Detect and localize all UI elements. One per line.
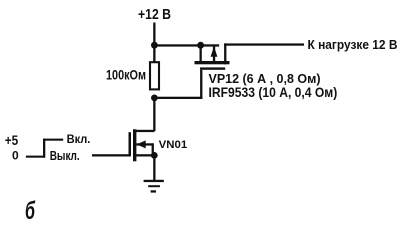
transistor VP12 substrate arrow	[211, 46, 218, 62]
svg-text:VP12 (6 А , 0,8 Ом): VP12 (6 А , 0,8 Ом)	[209, 71, 321, 86]
transistor VP12 gate lead to resistor bottom node	[154, 70, 203, 99]
transistor VP12 source stub	[200, 45, 202, 62]
svg-text:100кОм: 100кОм	[106, 67, 146, 82]
wire +12V rail to VP12 source and substrate	[153, 44, 219, 46]
svg-text:Вкл.: Вкл.	[67, 132, 91, 146]
input step waveform rising edge	[43, 139, 45, 158]
transistor VN01 substrate arrow to source node	[136, 140, 154, 155]
svg-text:IRF9533 (10 А, 0,4 Ом): IRF9533 (10 А, 0,4 Ом)	[209, 85, 338, 100]
resistor R1 body	[150, 62, 159, 89]
junction dot at +12V rail / resistor top	[151, 42, 158, 49]
input step waveform low segment	[26, 156, 45, 158]
svg-text:б: б	[25, 197, 36, 225]
svg-text:0: 0	[12, 149, 19, 163]
junction dot VN01 source / substrate	[151, 152, 158, 159]
svg-text:+5: +5	[5, 133, 19, 148]
wire resistor bottom node to VN01 drain	[153, 98, 155, 131]
wire input step to VN01 gate	[92, 154, 130, 156]
transistor VN01 source stub	[136, 154, 154, 156]
transistor VP12 channel bar	[195, 61, 230, 64]
transistor VN01 drain stub	[135, 130, 155, 132]
junction dot at VP12 source	[197, 42, 204, 49]
junction dot at resistor bottom / VP12 gate node	[151, 95, 158, 102]
wire VN01 source to ground	[153, 155, 155, 180]
ground bar 1	[144, 180, 164, 182]
ground bar 2	[148, 185, 160, 187]
svg-text:К нагрузке 12 В: К нагрузке 12 В	[308, 37, 398, 52]
input step waveform high segment	[43, 139, 63, 141]
transistor VN01 gate plate	[129, 132, 132, 156]
svg-text:VN01: VN01	[159, 139, 188, 151]
wire +12V terminal down to resistor top	[153, 23, 155, 64]
transistor VN01 channel bar	[133, 129, 136, 161]
wire VP12 drain to load	[224, 43, 304, 45]
ground bar 3	[151, 190, 156, 192]
svg-text:+12 В: +12 В	[138, 6, 171, 23]
svg-text:Выкл.: Выкл.	[50, 149, 80, 163]
transistor VP12 drain stub	[224, 43, 226, 64]
transistor VP12 gate bar	[200, 67, 225, 69]
